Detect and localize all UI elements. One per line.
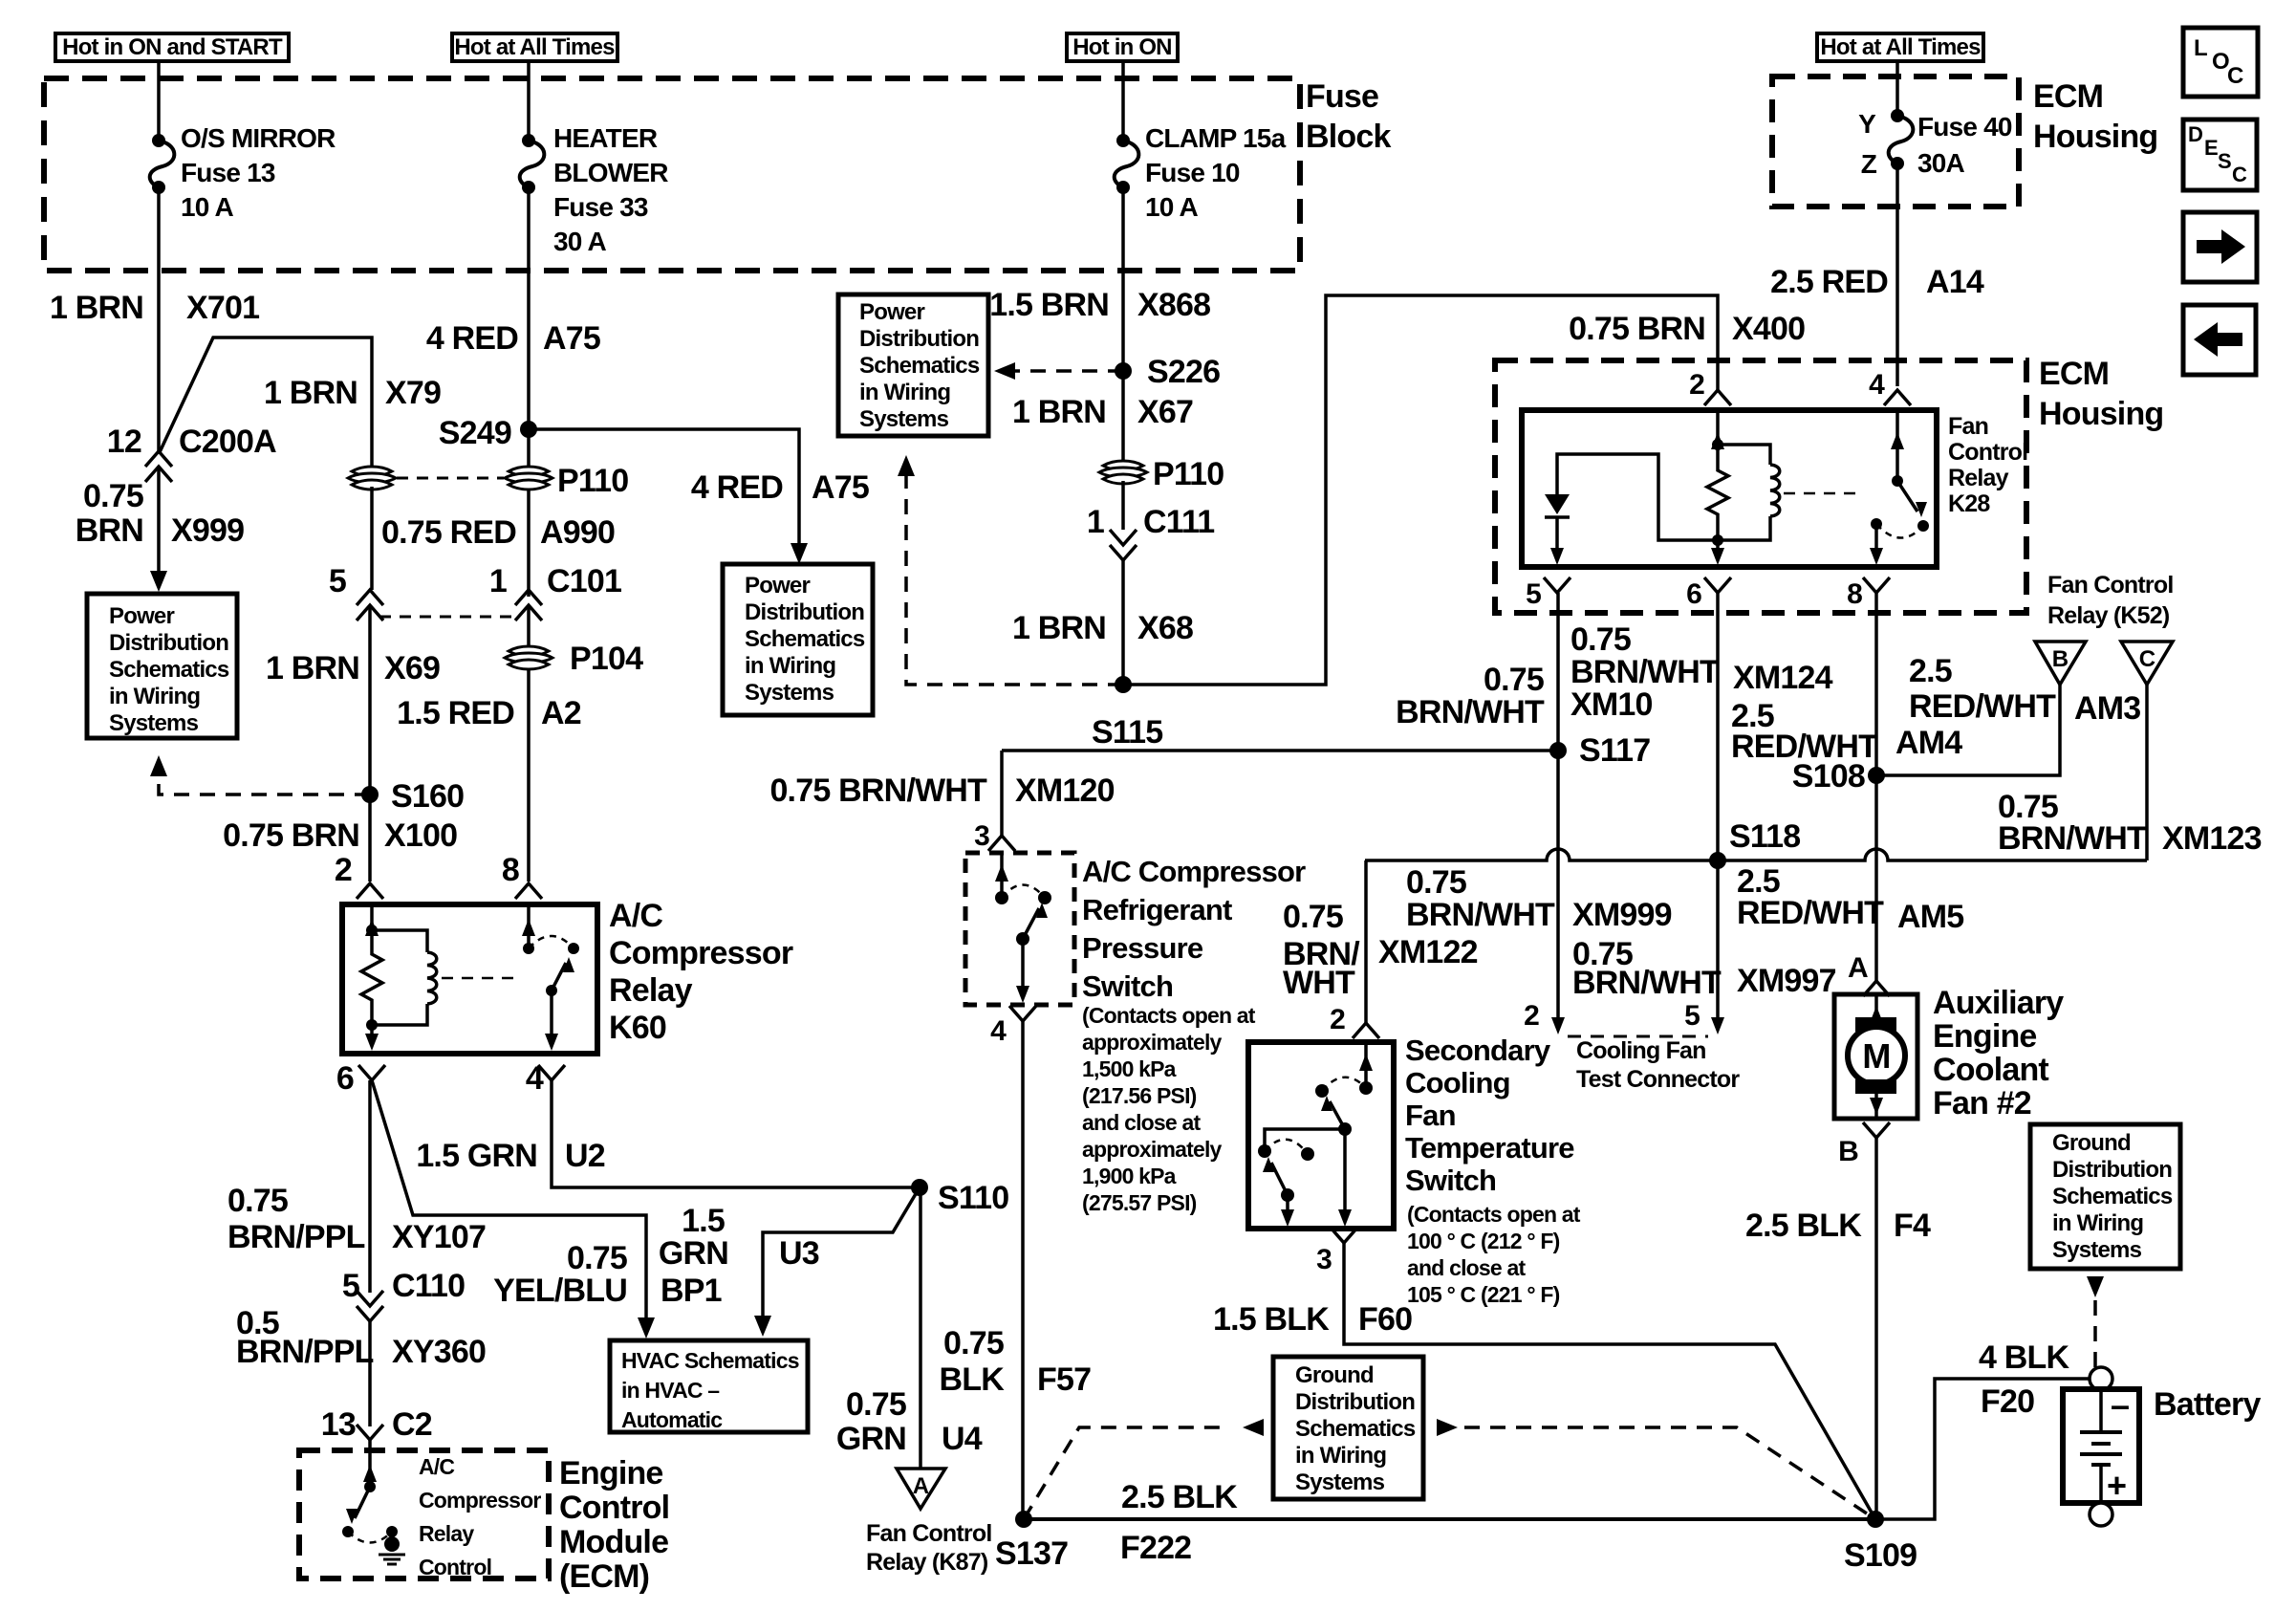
wire AM4 pin8 to S108 [1874, 593, 1878, 775]
svg-text:E: E [2204, 136, 2218, 160]
svg-text:XM999: XM999 [1572, 897, 1672, 933]
motor symbol [1855, 1017, 1896, 1032]
secondary switch travel arc 1 [1322, 1078, 1366, 1091]
wire X868 [1121, 187, 1125, 371]
svg-text:Power: Power [109, 603, 174, 629]
wire AM3 S108 to triangle B [1876, 685, 2060, 775]
K60 switch arm [546, 985, 557, 996]
svg-text:S226: S226 [1147, 354, 1220, 390]
svg-text:F4: F4 [1894, 1208, 1931, 1244]
secondary switch arm 1 [1338, 1122, 1352, 1136]
svg-text:P110: P110 [557, 463, 628, 499]
svg-text:2: 2 [1689, 369, 1704, 401]
K28 pin 5 chevron [1544, 577, 1570, 593]
svg-text:10 A: 10 A [181, 192, 233, 222]
svg-text:Fan: Fan [1948, 413, 1988, 440]
junction S109 [1867, 1511, 1884, 1528]
wire XM122 S118 to secondary switch [1364, 860, 1368, 1023]
svg-text:XY360: XY360 [392, 1334, 486, 1370]
K60 pin 6 chevron [358, 1065, 385, 1080]
wire F4 motor to S109 [1874, 1138, 1878, 1519]
svg-text:Module: Module [559, 1524, 668, 1560]
svg-text:Fuse: Fuse [1306, 78, 1378, 115]
svg-text:Z: Z [1861, 149, 1877, 179]
grommet P110 (left) [352, 467, 392, 476]
svg-text:in Wiring: in Wiring [1295, 1443, 1386, 1469]
svg-text:BRN/PPL: BRN/PPL [236, 1334, 374, 1370]
svg-text:100 ° C (212 ° F): 100 ° C (212 ° F) [1407, 1229, 1560, 1253]
wire X701 [157, 187, 161, 451]
svg-text:0.75: 0.75 [567, 1240, 627, 1276]
svg-text:(ECM): (ECM) [559, 1558, 649, 1595]
wire F20 S109 to battery [1875, 1379, 2089, 1519]
svg-text:0.75: 0.75 [846, 1386, 906, 1423]
wire X999 [157, 467, 161, 574]
svg-text:0.75 BRN: 0.75 BRN [1569, 311, 1705, 347]
svg-text:1.5: 1.5 [682, 1203, 725, 1239]
secondary switch outputs [1286, 1195, 1289, 1214]
wire A990 continues to C101 [370, 487, 374, 590]
svg-text:Distribution: Distribution [109, 630, 228, 656]
svg-text:AM3: AM3 [2074, 690, 2140, 727]
battery positive terminal [2090, 1503, 2112, 1526]
connector C110 [357, 1291, 383, 1306]
svg-text:C: C [2139, 646, 2155, 672]
svg-text:Engine: Engine [1933, 1018, 2037, 1055]
K28 switch contacts [1871, 518, 1882, 530]
svg-text:8: 8 [502, 852, 519, 888]
svg-text:10 A: 10 A [1145, 192, 1198, 222]
K28 diode branch wire [1557, 454, 1718, 540]
svg-text:S115: S115 [1092, 714, 1162, 751]
svg-text:1 BRN: 1 BRN [264, 375, 357, 411]
svg-text:A/C: A/C [419, 1454, 454, 1479]
svg-text:XY107: XY107 [392, 1219, 486, 1255]
svg-text:6: 6 [336, 1060, 354, 1097]
svg-text:Distribution: Distribution [2052, 1157, 2172, 1183]
dashed link S226 to Power Distribution box [1009, 369, 1123, 373]
wire X67 [1121, 371, 1125, 464]
wire into ECM [368, 1440, 372, 1450]
svg-text:S117: S117 [1579, 732, 1650, 769]
pressure switch dashed travel arc [1002, 885, 1045, 899]
wire S118 horizontal [1365, 849, 2147, 860]
K60 switch input pin 8 [527, 904, 531, 948]
Ground Distribution box (right) [2030, 1124, 2180, 1269]
svg-text:BRN/PPL: BRN/PPL [227, 1219, 365, 1255]
wire U3 from S110 to HVAC box [763, 1187, 920, 1321]
svg-text:S249: S249 [439, 415, 511, 451]
svg-text:Hot at All Times: Hot at All Times [1820, 34, 1981, 60]
svg-text:P110: P110 [1153, 456, 1224, 492]
svg-text:Cooling: Cooling [1405, 1066, 1510, 1099]
svg-text:XM124: XM124 [1733, 660, 1833, 696]
battery plates [2099, 1389, 2103, 1432]
ECM switch arm [355, 1487, 370, 1518]
svg-text:C: C [2232, 163, 2247, 186]
ground box down arrow [2087, 1276, 2104, 1297]
svg-text:1.5 GRN: 1.5 GRN [416, 1138, 537, 1174]
svg-text:U3: U3 [779, 1235, 819, 1272]
svg-text:BRN/WHT: BRN/WHT [1406, 897, 1555, 933]
ECM switch contacts [342, 1526, 354, 1537]
svg-text:Relay: Relay [609, 972, 693, 1009]
dashed link ground box to S109 [1464, 1427, 1875, 1519]
svg-text:HEATER: HEATER [553, 123, 658, 153]
svg-text:S108: S108 [1792, 758, 1865, 795]
wire XM120 horizontal from S117 [1002, 749, 1558, 752]
fuse F10 CLAMP 15a [1116, 134, 1130, 147]
header box Hot at All Times (right) [1817, 33, 1983, 61]
relay K28 box [1522, 410, 1937, 567]
svg-text:CLAMP 15a: CLAMP 15a [1145, 123, 1287, 153]
svg-text:1.5 BLK: 1.5 BLK [1213, 1301, 1330, 1338]
svg-text:BRN: BRN [76, 512, 143, 549]
svg-text:Schematics: Schematics [745, 626, 865, 652]
svg-text:GRN: GRN [659, 1235, 728, 1272]
pin 3 chevron secondary switch [1331, 1228, 1357, 1243]
svg-text:BP1: BP1 [661, 1273, 722, 1309]
svg-text:A/C Compressor: A/C Compressor [1082, 855, 1306, 888]
svg-text:in Wiring: in Wiring [2052, 1210, 2143, 1236]
svg-text:in Wiring: in Wiring [745, 653, 835, 679]
dashed link S160 to Power Distribution box [159, 774, 370, 795]
svg-text:Systems: Systems [745, 680, 834, 706]
K60 coil-switch dashed link [442, 977, 521, 980]
svg-text:4: 4 [1869, 369, 1885, 401]
wire F222 ground bus [1024, 1517, 1875, 1521]
junction S160 [361, 786, 379, 803]
connector C101 pin 1 chevron [515, 590, 542, 605]
connector C101 pin 5 chevron [357, 590, 383, 605]
svg-text:in Wiring: in Wiring [859, 380, 950, 405]
svg-text:S118: S118 [1729, 818, 1800, 855]
fuse F33 HEATER BLOWER [522, 134, 535, 147]
battery box [2063, 1389, 2139, 1503]
svg-text:12: 12 [107, 424, 141, 460]
K28 coil/resistor bottom junction [1712, 534, 1723, 546]
junction S118 [1709, 852, 1726, 869]
svg-text:F20: F20 [1981, 1383, 2034, 1420]
K28 pin 8 chevron [1863, 577, 1890, 593]
svg-text:2: 2 [1524, 1000, 1539, 1032]
svg-text:–: – [2111, 1385, 2129, 1425]
svg-text:Coolant: Coolant [1933, 1052, 2048, 1088]
dashed link S115 to Power Distribution box (up) [906, 474, 1123, 685]
svg-text:(Contacts open at: (Contacts open at [1407, 1202, 1581, 1227]
svg-text:XM10: XM10 [1570, 686, 1653, 723]
svg-text:Temperature: Temperature [1405, 1131, 1574, 1165]
svg-text:Control: Control [1948, 439, 2027, 466]
arrow into Power Distribution box (X999) [150, 571, 167, 592]
dashed link P110 pair [397, 477, 504, 480]
svg-text:X79: X79 [385, 375, 441, 411]
svg-text:4 RED: 4 RED [426, 320, 518, 357]
svg-text:1 BRN: 1 BRN [266, 650, 359, 686]
svg-text:Relay: Relay [419, 1521, 474, 1546]
svg-text:Systems: Systems [2052, 1237, 2142, 1263]
svg-text:A/C: A/C [609, 898, 662, 934]
svg-text:0.75: 0.75 [1283, 899, 1343, 935]
pin 2 chevron into K60 [357, 883, 383, 899]
svg-text:Battery: Battery [2154, 1386, 2261, 1423]
svg-text:30A: 30A [1917, 148, 1965, 178]
svg-text:approximately: approximately [1082, 1137, 1223, 1162]
svg-text:S137: S137 [995, 1535, 1068, 1572]
svg-text:0.75 BRN: 0.75 BRN [223, 817, 359, 854]
svg-text:1: 1 [489, 563, 507, 599]
Power Distribution Schematics in Wiring Systems box (top) [838, 294, 988, 436]
svg-text:S109: S109 [1844, 1537, 1917, 1574]
grommet P110 (right) [509, 467, 549, 476]
svg-text:C2: C2 [392, 1406, 432, 1443]
wire X400 from S115 to K28 pin 2 [1123, 295, 1718, 685]
svg-text:K60: K60 [609, 1010, 666, 1046]
svg-text:C200A: C200A [179, 424, 276, 460]
ground dashed link arrows [1243, 1419, 1264, 1436]
wire XY107 [368, 1080, 372, 1293]
svg-text:2.5: 2.5 [1909, 653, 1952, 689]
Power Distribution Schematics in Wiring Systems box (left) [87, 594, 237, 738]
svg-text:in HVAC –: in HVAC – [621, 1378, 720, 1403]
svg-text:GRN: GRN [836, 1421, 906, 1457]
svg-text:Fuse 13: Fuse 13 [181, 158, 275, 187]
legend box LOC [2183, 28, 2258, 97]
junction S115 [1115, 676, 1132, 693]
svg-text:Fan: Fan [1405, 1099, 1456, 1132]
svg-text:BRN/WHT: BRN/WHT [1570, 654, 1720, 690]
svg-text:Ground: Ground [2052, 1130, 2131, 1156]
svg-text:YEL/BLU: YEL/BLU [493, 1273, 627, 1309]
connector C200A [145, 451, 172, 467]
fuse F13 O/S MIRROR [152, 134, 165, 147]
svg-text:X701: X701 [186, 290, 259, 326]
A/C pressure switch dashed box [965, 853, 1074, 1005]
HVAC Schematics box [610, 1340, 808, 1432]
svg-text:4 BLK: 4 BLK [1979, 1339, 2069, 1376]
svg-text:BRN/WHT: BRN/WHT [1572, 965, 1722, 1001]
header box Hot in ON and START [55, 33, 289, 61]
svg-text:A75: A75 [543, 320, 600, 357]
svg-text:Hot in ON and START: Hot in ON and START [62, 34, 283, 60]
triangle connector A (K87) [897, 1469, 945, 1509]
wire X100 [368, 795, 372, 882]
svg-text:A75: A75 [812, 469, 869, 506]
ECM dashed box [299, 1450, 549, 1578]
svg-text:5: 5 [1684, 1000, 1700, 1032]
connector C111 [1121, 481, 1125, 530]
svg-text:2.5 BLK: 2.5 BLK [1745, 1208, 1862, 1244]
motor output arrow [1874, 1094, 1878, 1117]
fuse block dashed box [44, 78, 1300, 271]
svg-text:Schematics: Schematics [2052, 1184, 2173, 1209]
pin 2 chevron secondary switch [1353, 1023, 1379, 1038]
svg-text:Systems: Systems [859, 406, 949, 432]
svg-text:C: C [2227, 63, 2243, 89]
svg-text:BLK: BLK [940, 1361, 1006, 1398]
svg-text:Block: Block [1306, 119, 1391, 155]
svg-text:1 BRN: 1 BRN [50, 290, 143, 326]
wire XM997 S118 to test connector [1716, 860, 1720, 1019]
pin 8 chevron into K60 [515, 883, 542, 899]
svg-text:BRN/WHT: BRN/WHT [1998, 820, 2147, 857]
svg-text:X68: X68 [1137, 610, 1193, 646]
pin 4 chevron into K28 [1884, 390, 1911, 405]
K60 switch output [550, 991, 553, 1038]
wire X79 from C200A to P110 [160, 337, 372, 469]
svg-text:1 BRN: 1 BRN [1012, 394, 1106, 430]
K28 resistor [1707, 445, 1728, 540]
svg-text:RED/WHT: RED/WHT [1737, 895, 1884, 931]
svg-text:XM120: XM120 [1015, 773, 1115, 809]
svg-text:ECM: ECM [2039, 356, 2109, 392]
test connector dashed link [1568, 1035, 1708, 1038]
svg-text:Fuse 33: Fuse 33 [553, 192, 648, 222]
svg-text:Fan Control: Fan Control [2047, 572, 2173, 599]
svg-text:Schematics: Schematics [1295, 1416, 1416, 1442]
K60 switch fixed contact [568, 943, 579, 954]
connector C2 chevron [357, 1425, 383, 1440]
svg-text:B: B [2052, 646, 2069, 672]
svg-text:5: 5 [1526, 578, 1541, 610]
svg-text:Power: Power [859, 299, 924, 325]
svg-text:O/S MIRROR: O/S MIRROR [181, 123, 336, 153]
svg-text:A: A [1848, 952, 1868, 984]
svg-text:Control: Control [419, 1555, 491, 1579]
svg-text:Ground: Ground [1295, 1362, 1374, 1388]
wire U2 from K60 pin 4 to S110 [552, 1080, 920, 1187]
svg-text:5: 5 [329, 563, 346, 599]
svg-text:C110: C110 [392, 1268, 465, 1304]
svg-text:1 BRN: 1 BRN [1012, 610, 1106, 646]
header box Hot in ON [1067, 33, 1178, 61]
svg-text:4: 4 [990, 1015, 1007, 1047]
svg-text:Hot at All Times: Hot at All Times [454, 34, 615, 60]
svg-text:Automatic: Automatic [621, 1407, 723, 1432]
wire F57 to S137 [1021, 1021, 1025, 1519]
svg-text:and close at: and close at [1407, 1255, 1526, 1280]
svg-text:AM5: AM5 [1897, 899, 1963, 935]
svg-text:1.5 BRN: 1.5 BRN [989, 287, 1109, 323]
pressure switch internal input [1000, 853, 1004, 898]
test connector pin 2 arrow [1551, 1017, 1565, 1034]
wire XM999 pin5 to test connector [1556, 751, 1560, 1019]
wire F60 [1344, 1243, 1875, 1519]
svg-text:F57: F57 [1037, 1361, 1091, 1398]
secondary switch travel arc 2 [1265, 1140, 1308, 1154]
wire A75 [527, 187, 531, 597]
svg-text:L: L [2194, 35, 2207, 61]
wire A14 [1895, 163, 1899, 386]
header box Hot at All Times (left) [452, 33, 617, 61]
fuse F40 [1891, 109, 1904, 122]
svg-text:Compressor: Compressor [609, 935, 793, 971]
wire XM120 down to pressure switch [1000, 751, 1004, 836]
legend box DESC [2183, 120, 2257, 190]
svg-text:Housing: Housing [2039, 396, 2163, 432]
dashed link to battery [2093, 1300, 2097, 1367]
K28 coil [1718, 445, 1770, 465]
K28 switch output wire [1874, 524, 1878, 553]
K28 switch arm [1897, 481, 1917, 512]
svg-text:Engine: Engine [559, 1455, 663, 1491]
wire A75 branch to Power Distribution box 2 [529, 429, 799, 547]
secondary switch input [1364, 1042, 1368, 1088]
svg-text:Control: Control [559, 1490, 669, 1526]
secondary switch arm 2 [1281, 1188, 1294, 1202]
legend box right arrow [2183, 212, 2257, 282]
svg-text:0.75: 0.75 [1570, 621, 1631, 658]
secondary switch contact 2 [1258, 1144, 1271, 1158]
K28 coil input wire pin 2 [1716, 410, 1720, 445]
motor input arrow [1874, 994, 1878, 1017]
svg-text:C111: C111 [1143, 504, 1214, 540]
ECM housing dashed box (relay K28) [1495, 360, 2026, 613]
svg-text:Distribution: Distribution [745, 599, 864, 625]
svg-text:Distribution: Distribution [859, 326, 979, 352]
svg-text:F222: F222 [1120, 1530, 1191, 1566]
svg-text:A990: A990 [540, 514, 615, 551]
svg-text:Switch: Switch [1405, 1164, 1496, 1197]
svg-text:Compressor: Compressor [419, 1488, 541, 1513]
svg-text:Fan #2: Fan #2 [1933, 1085, 2031, 1121]
dashed link S137 to ground box [1024, 1427, 1224, 1519]
auxiliary fan motor box [1834, 994, 1917, 1119]
svg-text:Pressure: Pressure [1082, 931, 1203, 965]
pin 2 chevron into K28 [1704, 390, 1731, 405]
svg-text:+: + [2107, 1466, 2126, 1505]
K28 pin 6 chevron [1704, 577, 1731, 593]
svg-text:Fuse 40: Fuse 40 [1917, 112, 2012, 142]
svg-text:Relay: Relay [1948, 465, 2009, 491]
svg-text:Housing: Housing [2033, 119, 2157, 155]
Power Distribution Schematics in Wiring Systems box (middle) [723, 564, 873, 715]
svg-text:1,500 kPa: 1,500 kPa [1082, 1056, 1177, 1081]
svg-text:0.75: 0.75 [83, 478, 143, 514]
svg-text:3: 3 [974, 820, 989, 852]
svg-text:Auxiliary: Auxiliary [1933, 985, 2064, 1021]
svg-text:0.75: 0.75 [227, 1183, 288, 1219]
svg-text:S110: S110 [938, 1180, 1008, 1216]
svg-text:(217.56 PSI): (217.56 PSI) [1082, 1083, 1197, 1108]
svg-text:4 RED: 4 RED [691, 469, 783, 506]
pin 3 chevron pressure switch [988, 836, 1015, 851]
wire X69 below C101 [368, 605, 372, 795]
svg-text:X67: X67 [1137, 394, 1193, 430]
secondary switch link wire [1265, 1129, 1345, 1151]
svg-text:Refrigerant: Refrigerant [1082, 893, 1232, 926]
pin 4 chevron pressure switch [1009, 1006, 1036, 1021]
pressure switch fixed contact [1038, 891, 1051, 904]
K60 switch travel arc [529, 936, 574, 948]
ECM internal input wire [368, 1450, 372, 1487]
ECM housing dashed box (top right) [1772, 76, 2019, 207]
svg-text:X100: X100 [384, 817, 457, 854]
wire XM10 pin5 to S117 [1556, 593, 1560, 751]
pressure switch arm [1016, 932, 1029, 946]
svg-text:WHT: WHT [1283, 965, 1355, 1001]
svg-text:C101: C101 [547, 563, 621, 599]
svg-text:BRN/WHT: BRN/WHT [1396, 694, 1545, 730]
wire U4 from S110 to triangle A [919, 1187, 922, 1469]
triangle connector B [2035, 642, 2086, 685]
wire from Hot in ON and START to Fuse 13 [157, 61, 161, 141]
K60 pin 4 chevron [538, 1065, 565, 1080]
svg-text:5: 5 [342, 1268, 359, 1304]
svg-text:Fan Control: Fan Control [866, 1520, 991, 1547]
svg-text:A14: A14 [1926, 264, 1984, 300]
svg-text:M: M [1862, 1036, 1890, 1076]
